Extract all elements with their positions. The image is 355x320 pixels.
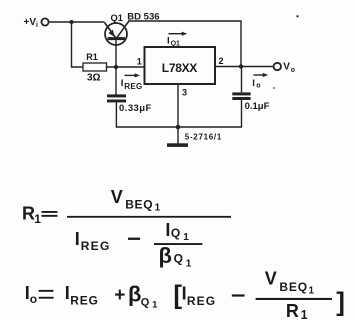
label Vo xyxy=(283,61,295,74)
svg-text:3: 3 xyxy=(182,88,187,98)
svg-text:0.33μF: 0.33μF xyxy=(119,103,152,114)
svg-text:3Ω: 3Ω xyxy=(87,73,101,84)
node Vo output terminal xyxy=(274,63,281,70)
svg-text:BEQ: BEQ xyxy=(279,280,308,294)
svg-text:REG: REG xyxy=(187,294,216,308)
node base junction xyxy=(114,65,118,69)
wire input to emitter xyxy=(49,21,105,23)
formula 2: Io = IREG + betaQ1 [ IREG - VBEQ1/R1 ] xyxy=(25,268,345,320)
svg-text:1: 1 xyxy=(183,232,189,243)
transistor Q1 emitter with arrow xyxy=(105,23,116,38)
arrow IREG xyxy=(125,74,136,76)
formula 1: R1 = VBEQ1 / (IREG - IQ1/betaQ1) xyxy=(22,187,231,270)
svg-text:i: i xyxy=(36,22,38,29)
label IREG xyxy=(121,78,143,91)
svg-text:I: I xyxy=(65,283,70,303)
wire pin 3 down xyxy=(177,84,179,127)
svg-text:REG: REG xyxy=(70,293,99,307)
svg-text:L78XX: L78XX xyxy=(162,61,197,75)
svg-text:1: 1 xyxy=(155,202,161,213)
capacitor C2 0.1uF xyxy=(232,92,250,95)
svg-text:R: R xyxy=(286,301,299,320)
svg-text:REG: REG xyxy=(124,82,142,91)
node +Vi input terminal xyxy=(41,18,48,25)
svg-text:5-2716/1: 5-2716/1 xyxy=(185,132,222,141)
wire ground stub xyxy=(177,127,179,144)
speck xyxy=(273,87,275,89)
svg-text:I: I xyxy=(165,220,170,240)
wire C1 to bottom rail xyxy=(116,102,242,127)
svg-text:+: + xyxy=(114,285,125,306)
svg-text:Q1: Q1 xyxy=(111,13,123,23)
wire C2 to bottom rail xyxy=(241,100,243,127)
transistor Q1 collector xyxy=(117,21,129,38)
wire base node down to C1 xyxy=(115,67,117,95)
wire R1 to pin 1 xyxy=(107,66,145,68)
svg-text:I: I xyxy=(182,283,187,303)
svg-text:+V: +V xyxy=(24,17,37,28)
wire base lead xyxy=(115,39,117,67)
arrow Io xyxy=(254,74,264,76)
svg-text:]: ] xyxy=(336,287,345,317)
svg-text:o: o xyxy=(30,292,37,306)
svg-text:I: I xyxy=(167,35,170,46)
wire output node down to C2 xyxy=(241,67,243,93)
svg-text:BEQ: BEQ xyxy=(125,198,153,212)
svg-text:Q: Q xyxy=(171,226,180,240)
label Io xyxy=(252,78,260,89)
node output junction xyxy=(239,64,243,68)
wire junction down to R1 level xyxy=(72,22,84,67)
transistor Q1 circle xyxy=(105,23,127,45)
svg-text:Q: Q xyxy=(141,296,150,308)
svg-text:2: 2 xyxy=(219,56,224,66)
svg-text:REG: REG xyxy=(81,239,111,253)
svg-text:1: 1 xyxy=(34,212,41,226)
node ground junction xyxy=(176,125,181,130)
capacitor C1 0.33uF xyxy=(107,94,126,97)
svg-text:I: I xyxy=(121,78,124,89)
svg-text:V: V xyxy=(283,61,290,72)
arrow IQ1 xyxy=(169,33,183,35)
svg-text:β: β xyxy=(159,243,172,268)
svg-text:BD 536: BD 536 xyxy=(127,12,159,23)
svg-text:o: o xyxy=(256,83,260,90)
svg-text:V: V xyxy=(111,187,123,207)
node junction top wire to R1 branch xyxy=(70,20,74,24)
svg-text:Q: Q xyxy=(174,251,183,265)
svg-text:Q1: Q1 xyxy=(171,41,180,48)
svg-text:0.1μF: 0.1μF xyxy=(245,101,270,112)
svg-text:1: 1 xyxy=(301,308,308,320)
label IQ1 xyxy=(167,35,180,47)
resistor R1 xyxy=(83,63,107,71)
svg-text:1: 1 xyxy=(186,259,192,270)
svg-text:1: 1 xyxy=(309,285,315,296)
speck xyxy=(296,15,298,17)
svg-text:I: I xyxy=(252,78,255,89)
svg-text:V: V xyxy=(265,268,277,288)
label +Vi xyxy=(24,17,39,29)
svg-text:β: β xyxy=(128,282,141,307)
svg-text:o: o xyxy=(291,67,295,74)
svg-text:1: 1 xyxy=(152,299,158,310)
svg-text:R1: R1 xyxy=(86,52,98,62)
ground xyxy=(167,143,188,147)
svg-text:1: 1 xyxy=(137,57,142,67)
wire pin 2 to output terminal xyxy=(215,66,274,68)
transistor Q1 base bar xyxy=(108,37,126,40)
svg-text:I: I xyxy=(75,229,80,249)
regulator U1 L78XX box xyxy=(145,47,216,84)
wire top collector to output corner xyxy=(128,21,241,67)
svg-text:R: R xyxy=(22,203,35,223)
